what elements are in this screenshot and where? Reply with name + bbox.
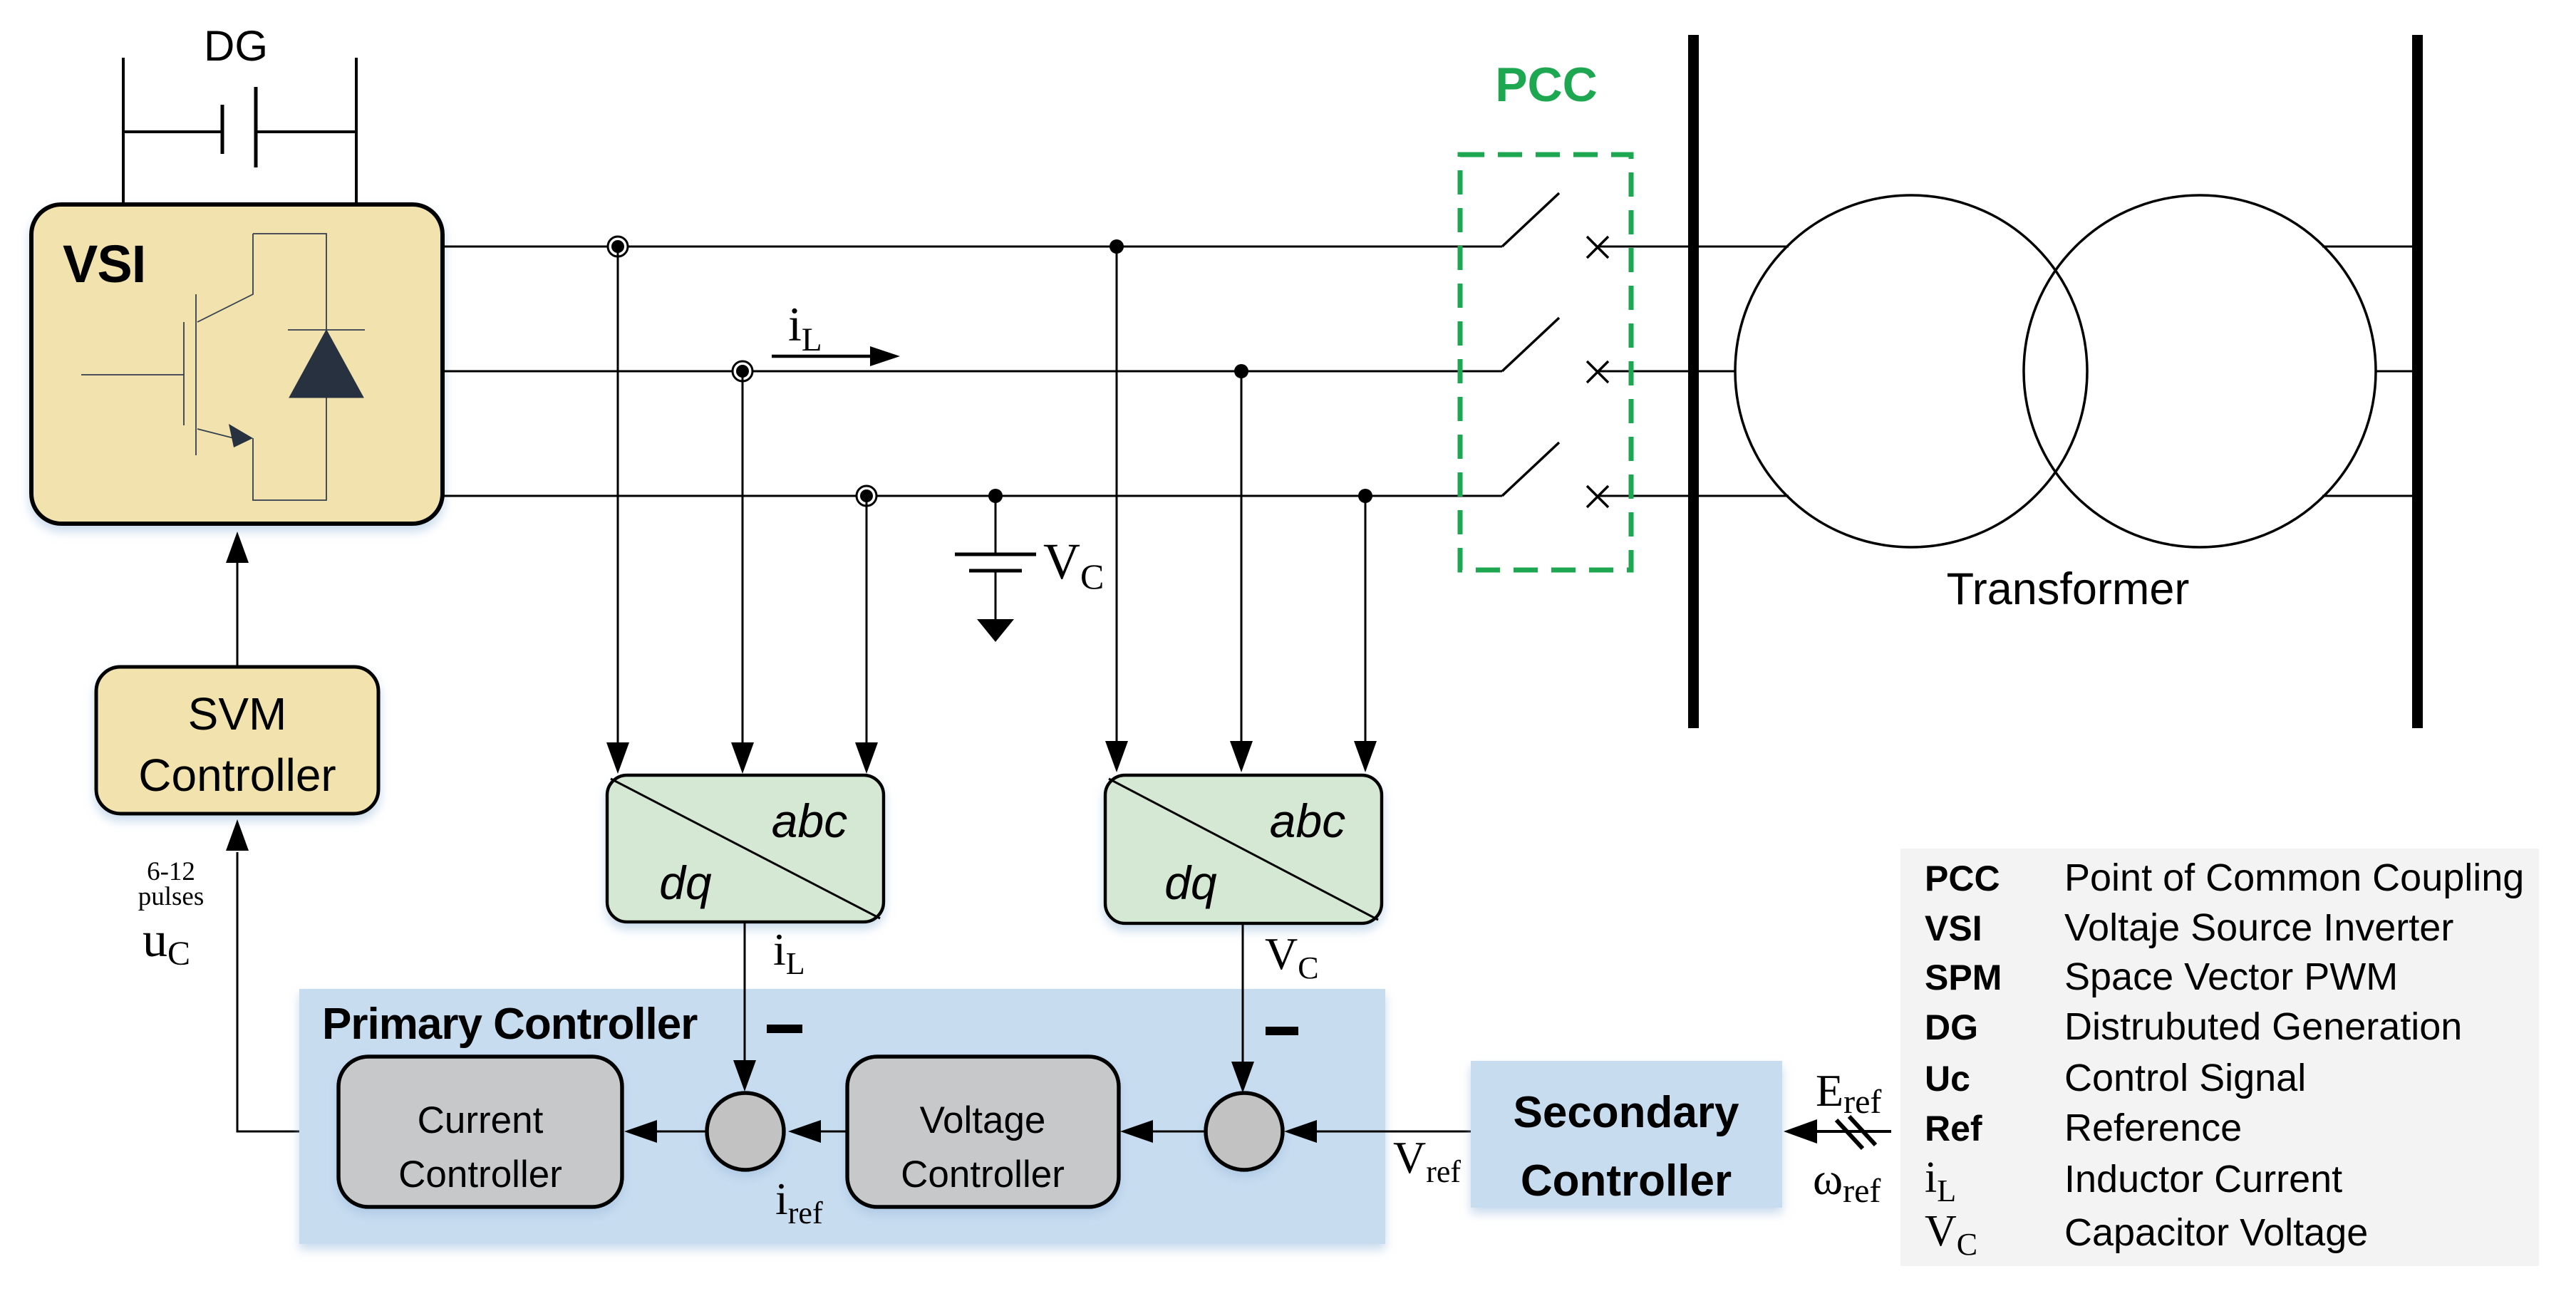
wire summing junction 2 to Voltage Controller: [1153, 1131, 1206, 1133]
svg-text:Point of Common Coupling: Point of Common Coupling: [2064, 856, 2524, 899]
wire right rail of DG: [355, 58, 358, 204]
svg-text:VSI: VSI: [1925, 908, 1982, 948]
svg-text:Controller: Controller: [138, 750, 336, 801]
capacitor plate bottom: [969, 569, 1022, 573]
wire VC from block 2 to summing junction 2: [1242, 923, 1244, 1062]
freewheel diode D1: [289, 330, 363, 398]
arrowhead into SVM Controller: [226, 819, 249, 851]
wire left bus to transformer top: [1699, 246, 1789, 248]
tap wire B2 to abc/dq block 2: [1241, 371, 1243, 741]
bus bar PCC (left): [1688, 35, 1699, 728]
wire capacitor to ground arrow: [995, 572, 997, 619]
wire phase C segment VSI to switch: [443, 495, 1502, 497]
node capacitor junction dot: [988, 489, 1003, 503]
node A2 dot: [1109, 239, 1124, 254]
svg-text:dq: dq: [659, 856, 712, 909]
ground arrow: [977, 619, 1014, 642]
tap wire C1 to abc/dq block 1: [866, 496, 868, 742]
svg-text:SVM: SVM: [188, 688, 287, 740]
svg-text:Ref: Ref: [1925, 1109, 1982, 1149]
svg-text:PCC: PCC: [1925, 859, 2000, 898]
node C1 ring: [857, 486, 876, 506]
breaker switch S2 X contact: [1587, 361, 1608, 383]
node B2 dot: [1234, 364, 1248, 378]
tap wire A2 to abc/dq block 2: [1116, 247, 1118, 741]
svg-text:Reference: Reference: [2064, 1106, 2242, 1149]
reference break double slash: [1836, 1116, 1876, 1149]
capacitor plate top: [955, 553, 1036, 556]
battery long plate: [254, 87, 258, 167]
wire left bus to transformer middle: [1699, 370, 1736, 373]
SVM Controller U2: [96, 667, 378, 814]
battery DG: [123, 22, 356, 204]
wire transformer to right bus middle: [2375, 370, 2412, 373]
svg-text:Capacitor Voltage: Capacitor Voltage: [2064, 1211, 2368, 1254]
svg-text:abc: abc: [1270, 794, 1345, 847]
IGBT Q1: [81, 234, 326, 500]
wire reference into Secondary Controller: [1817, 1130, 1891, 1133]
svg-text:pulses: pulses: [138, 882, 205, 911]
wire Voltage Controller to summing junction 1: [821, 1131, 847, 1133]
svg-text:SPM: SPM: [1925, 958, 2002, 997]
svg-text:DG: DG: [204, 22, 268, 70]
wire SVM Controller to VSI: [237, 563, 239, 667]
svg-text:Current: Current: [418, 1099, 544, 1141]
summing junction 2: [1206, 1093, 1283, 1170]
breaker switch S2 blade: [1502, 318, 1559, 371]
legend panel: [1900, 849, 2539, 1266]
svg-text:Controller: Controller: [901, 1154, 1065, 1196]
svg-text:Transformer: Transformer: [1947, 564, 2190, 614]
svg-text:Space Vector PWM: Space Vector PWM: [2064, 955, 2398, 998]
breaker switch S1 X contact: [1587, 237, 1608, 258]
wire phase B switch to bus: [1598, 370, 1693, 373]
breaker switch S3 X contact: [1587, 486, 1608, 507]
wire transformer to right bus top: [2322, 246, 2412, 248]
Voltage Controller box: [847, 1057, 1119, 1207]
PCC dashed boundary: [1460, 155, 1631, 570]
svg-text:Voltage: Voltage: [920, 1099, 1046, 1141]
breaker switch S3 blade: [1502, 442, 1559, 496]
abc/dq transform block 1: [607, 775, 884, 922]
svg-text:Controller: Controller: [1521, 1156, 1732, 1206]
wire right stub from battery: [257, 130, 356, 133]
svg-text:Control Signal: Control Signal: [2064, 1057, 2306, 1099]
Secondary Controller box: [1471, 1061, 1782, 1208]
wire summing junction 1 to Current Controller: [657, 1131, 707, 1133]
Current Controller box: [338, 1057, 622, 1207]
abc/dq transform block 2: [1105, 775, 1382, 923]
tap wire C2 to abc/dq block 2: [1365, 496, 1367, 741]
diode cathode bar: [288, 329, 365, 331]
bus bar grid (right): [2412, 35, 2423, 728]
svg-text:Controller: Controller: [398, 1154, 562, 1196]
arrowhead into VSI: [226, 532, 249, 563]
Primary Controller region: [299, 989, 1385, 1244]
svg-text:Distrubuted Generation: Distrubuted Generation: [2064, 1005, 2462, 1048]
svg-text:dq: dq: [1164, 856, 1217, 909]
wire phase A switch to bus: [1598, 246, 1693, 248]
summing junction 1: [707, 1093, 784, 1170]
wire left bus to transformer bottom: [1699, 495, 1789, 497]
svg-text:PCC: PCC: [1495, 58, 1598, 112]
transformer secondary winding circle: [2024, 195, 2376, 547]
wire phase A segment VSI to switch: [443, 246, 1502, 248]
wire iL from block 1 to summing junction 1: [744, 922, 746, 1060]
VSI box: [31, 204, 443, 524]
svg-text:Primary Controller: Primary Controller: [322, 1000, 698, 1049]
node C2 dot: [1358, 489, 1372, 503]
breaker switch S1 blade: [1502, 193, 1559, 247]
svg-text:abc: abc: [772, 794, 847, 847]
label iL on phase B with arrow: [772, 297, 900, 366]
minus sign at summing junction 2: [1266, 1027, 1298, 1035]
wire phase B segment VSI to switch: [443, 370, 1502, 373]
wire node to capacitor: [995, 496, 997, 553]
node B1 ring: [733, 361, 752, 381]
wire left stub to battery: [123, 130, 222, 133]
svg-text:VSI: VSI: [63, 234, 145, 294]
capacitor C: [955, 496, 1104, 642]
node A1 ring: [608, 237, 628, 256]
battery short plate: [221, 105, 224, 154]
svg-text:Inductor Current: Inductor Current: [2064, 1158, 2342, 1201]
svg-text:Uc: Uc: [1925, 1059, 1970, 1099]
svg-text:Voltaje Source Inverter: Voltaje Source Inverter: [2064, 906, 2453, 949]
current direction arrow: [772, 355, 874, 358]
wire left rail of DG: [122, 58, 125, 204]
tap wire A1 to abc/dq block 1: [617, 247, 619, 742]
tap wire B1 to abc/dq block 1: [742, 371, 744, 742]
minus sign at summing junction 1: [767, 1025, 802, 1033]
wire uC from Current Controller to SVM Controller: [237, 852, 338, 1131]
svg-text:DG: DG: [1925, 1007, 1978, 1047]
svg-text:Secondary: Secondary: [1513, 1088, 1739, 1137]
wire Secondary Controller to summing junction 2: [1317, 1131, 1471, 1133]
wire transformer to right bus bottom: [2322, 495, 2412, 497]
IGBT emitter arrowhead: [229, 424, 253, 447]
transformer primary winding circle: [1735, 195, 2087, 547]
wire phase C switch to bus: [1598, 495, 1693, 497]
